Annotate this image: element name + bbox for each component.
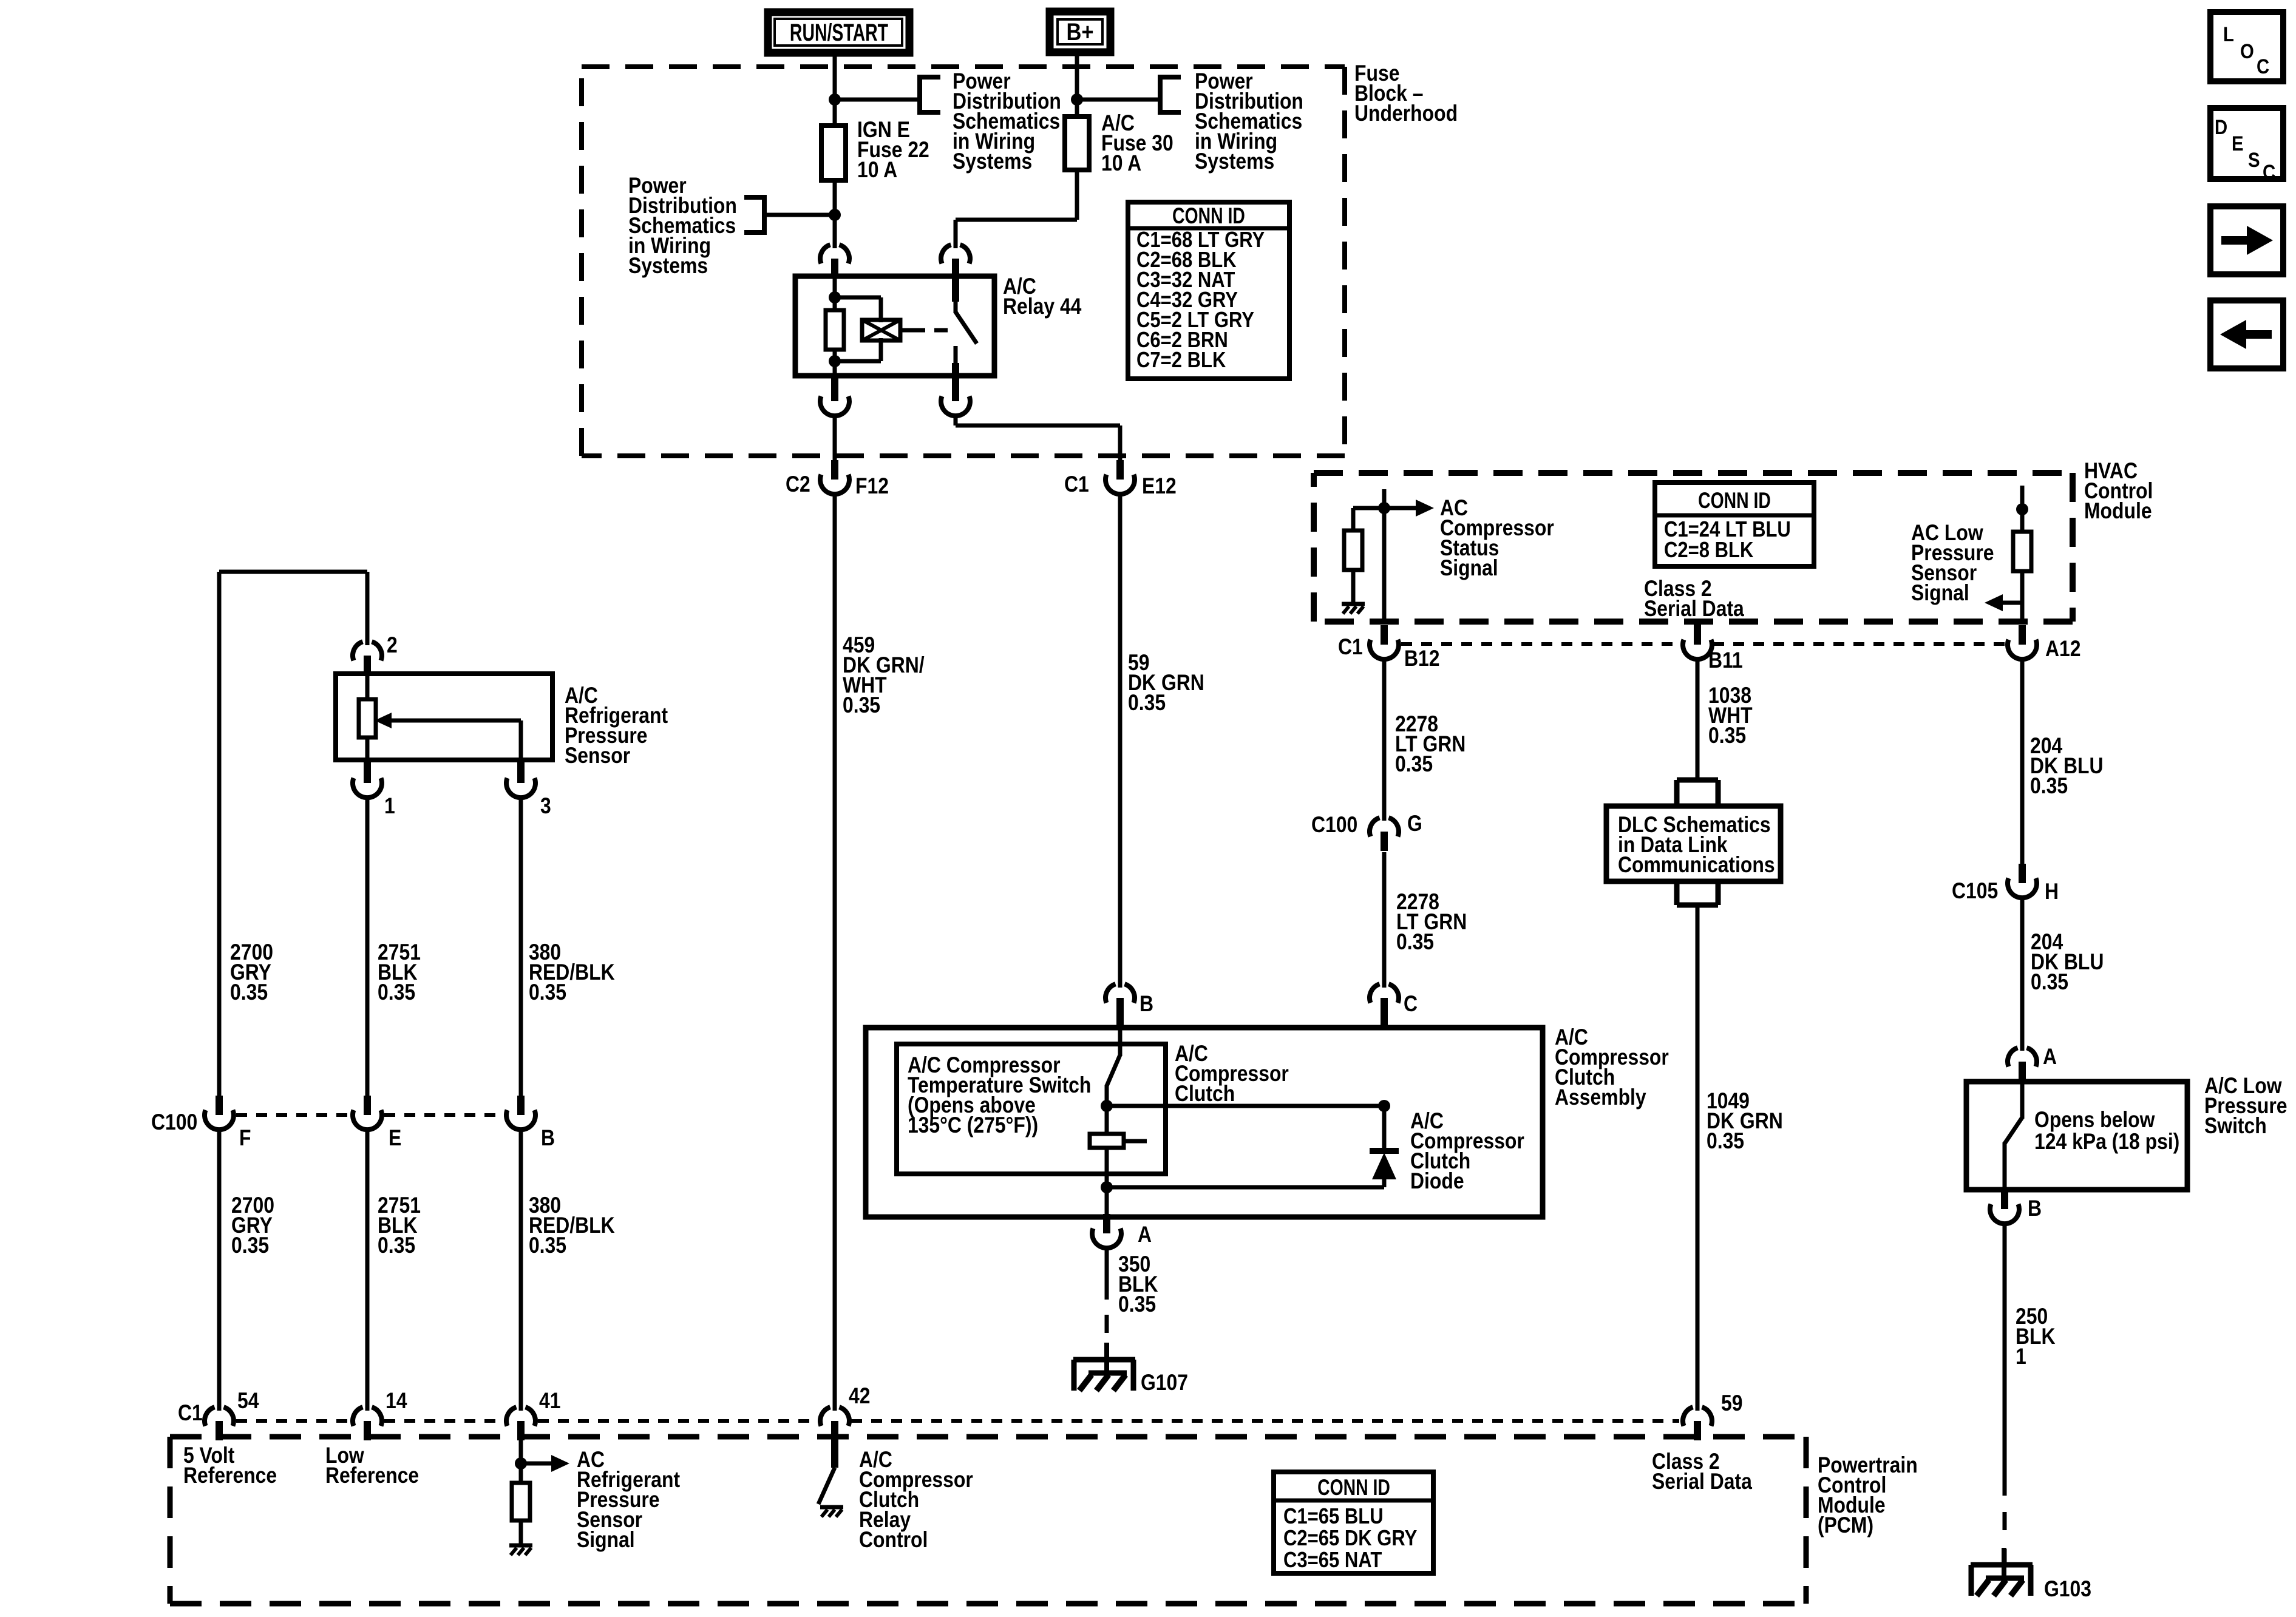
junction node relay coil bottom [829, 355, 841, 367]
relay control switch blade PCM [818, 1437, 835, 1504]
svg-text:L: L [2223, 22, 2234, 46]
connector C100 G [1370, 818, 1399, 851]
svg-text:A12: A12 [2045, 637, 2081, 662]
svg-text:0.35: 0.35 [378, 980, 415, 1005]
table PCM CONN ID [1274, 1472, 1433, 1573]
connector PCM pin 42 [820, 1407, 849, 1440]
wire 250 BLK [2003, 1224, 2007, 1496]
svg-text:A: A [2043, 1045, 2057, 1070]
svg-text:RUN/START: RUN/START [790, 19, 888, 46]
connector clutch pin A [1092, 1214, 1121, 1248]
svg-text:Clutch: Clutch [1175, 1082, 1235, 1107]
svg-text:0.35: 0.35 [1707, 1129, 1744, 1154]
resistor HVAC status pulldown [1344, 531, 1362, 570]
label power distribution schematics 3 [1195, 69, 1303, 174]
svg-text:1: 1 [384, 794, 395, 819]
temperature switch element [1090, 1106, 1147, 1148]
svg-text:G107: G107 [1141, 1371, 1188, 1395]
off-page bracket power distribution 3 [1160, 75, 1181, 115]
off-page bracket power distribution 1 [920, 75, 940, 115]
svg-text:C: C [1404, 992, 1418, 1017]
nav box LOC [2210, 12, 2283, 81]
wire sensor resistor bottom [365, 737, 370, 760]
wire relay coil branch [833, 275, 837, 311]
nav box arrow right [2210, 206, 2283, 274]
wire 459 DK GRN/WHT [833, 493, 837, 1411]
label wire 59 DK GRN 0.35 [1128, 651, 1204, 716]
dashed wire to G103 [2003, 1512, 2007, 1530]
nav box DESC [2210, 108, 2283, 179]
junction node clutch bottom [1101, 1181, 1113, 1193]
svg-text:Signal: Signal [1440, 556, 1498, 581]
svg-text:0.35: 0.35 [378, 1233, 415, 1258]
wire 204 DK BLU lower [2020, 898, 2025, 1051]
label A/C Refrigerant Pressure Sensor [565, 683, 668, 768]
wire 2751 upper [365, 796, 370, 1099]
svg-text:0.35: 0.35 [1396, 930, 1434, 955]
label power distribution schematics 1 [953, 69, 1061, 174]
label wire 2751 BLK 0.35 upper [378, 940, 421, 1005]
resistor relay internal [826, 310, 844, 350]
svg-text:B: B [541, 1126, 555, 1151]
connector relay switch pin top [941, 245, 970, 278]
wire clutch to ground pin [1105, 1187, 1109, 1217]
HVAC control module dashed box [1314, 473, 2073, 622]
fuse IGN E Fuse 22 10A [821, 126, 846, 180]
svg-text:2: 2 [387, 633, 398, 658]
svg-text:Serial Data: Serial Data [1644, 597, 1745, 622]
label wire 2700 GRY 0.35 upper [230, 940, 273, 1005]
nav box arrow left [2210, 300, 2283, 368]
dashed wire to G107 [1105, 1315, 1109, 1333]
label wire 204 DK BLU 0.35 upper [2030, 734, 2103, 799]
ground HVAC internal [1342, 604, 1365, 614]
A/C compressor temperature switch box [897, 1044, 1166, 1174]
wire to power distribution reference 1 [835, 98, 920, 102]
svg-text:Diode: Diode [1410, 1169, 1464, 1194]
svg-text:C2=8 BLK: C2=8 BLK [1664, 538, 1753, 563]
svg-text:C1: C1 [1338, 635, 1363, 660]
label wire 204 DK BLU 0.35 lower [2031, 930, 2104, 995]
svg-text:Serial Data: Serial Data [1652, 1470, 1753, 1494]
label wire 2751 BLK 0.35 lower [378, 1193, 421, 1258]
connector B11 [1694, 620, 1701, 629]
svg-text:C7=2 BLK: C7=2 BLK [1136, 348, 1226, 373]
wire to power distribution reference 3 [1077, 98, 1160, 102]
label A/C Compressor Clutch [1175, 1042, 1289, 1107]
label DLC Schematics in Data Link Communications [1618, 813, 1775, 878]
svg-text:0.35: 0.35 [231, 1233, 269, 1258]
off-page bracket DLC top [1677, 780, 1718, 804]
label wire 2700 GRY 0.35 lower [231, 1193, 274, 1258]
sensor wiper arrow [375, 713, 521, 760]
label AC Refrigerant Pressure Sensor Signal [577, 1448, 681, 1553]
wire 5V reference top run [219, 572, 367, 1099]
svg-text:D: D [2215, 115, 2227, 139]
svg-text:C2: C2 [786, 472, 810, 497]
label A/C Compressor Clutch Relay Control [859, 1448, 973, 1553]
wire 2278 lower [1382, 852, 1387, 988]
connector PCM pin 14 [353, 1407, 382, 1440]
wire IGN E fuse to relay [833, 180, 837, 248]
wire 2751 lower [365, 1128, 370, 1411]
label Class 2 Serial Data PCM [1652, 1449, 1753, 1494]
dashed connector line C100 [236, 1113, 503, 1117]
svg-text:42: 42 [849, 1384, 870, 1409]
label wire 1049 DK GRN 0.35 [1707, 1089, 1783, 1154]
label wire 380 RED/BLK 0.35 lower [529, 1193, 615, 1258]
wire into G103 [2003, 1549, 2007, 1565]
svg-text:Sensor: Sensor [565, 744, 630, 768]
svg-text:0.35: 0.35 [230, 980, 268, 1005]
ground G103 [1971, 1548, 2033, 1596]
svg-text:O: O [2240, 39, 2254, 63]
svg-text:Systems: Systems [1195, 149, 1274, 174]
svg-text:124 kPa (18 psi): 124 kPa (18 psi) [2034, 1130, 2179, 1154]
svg-text:B+: B+ [1066, 18, 1093, 46]
wire PCM resistor to ground [519, 1520, 523, 1544]
wire HVAC pulldown [1351, 508, 1356, 532]
wire RUN/START ignition feed [833, 53, 837, 128]
label wire 2278 LT GRN 0.35 upper [1395, 712, 1466, 777]
label wire 350 BLK 0.35 [1118, 1252, 1158, 1317]
svg-text:B: B [2028, 1196, 2042, 1221]
wire into G107 [1105, 1347, 1109, 1361]
connector low pressure switch pin B [1990, 1190, 2019, 1224]
resistor HVAC low pressure pullup [2013, 532, 2031, 571]
off-page bracket power distribution 2 [744, 195, 764, 235]
svg-text:Opens below: Opens below [2034, 1108, 2155, 1133]
svg-text:Signal: Signal [1911, 581, 1969, 606]
svg-text:0.35: 0.35 [843, 693, 880, 718]
table fuse block CONN ID [1128, 202, 1289, 379]
connector clutch pin C [1370, 984, 1399, 1017]
wire 350 BLK [1105, 1247, 1109, 1300]
label HVAC Control Module [2084, 459, 2153, 524]
svg-text:CONN ID: CONN ID [1317, 1476, 1390, 1500]
connector relay coil pin bottom [820, 382, 849, 416]
wire B+ battery feed [1075, 52, 1079, 119]
junction node ign feed [829, 93, 841, 106]
svg-text:(PCM): (PCM) [1818, 1513, 1873, 1538]
label A/C Compressor Temperature Switch [908, 1053, 1091, 1138]
svg-text:C1: C1 [178, 1401, 203, 1426]
connector C105 H [2008, 864, 2037, 898]
connector A12 [2008, 625, 2037, 659]
svg-text:14: 14 [385, 1389, 407, 1414]
junction node low pressure signal [2016, 503, 2028, 515]
wire sensor resistor top [365, 674, 370, 700]
svg-text:E: E [2232, 132, 2244, 155]
wire AC compressor status node [1353, 489, 1384, 624]
A/C low pressure switch box [1966, 1082, 2187, 1190]
connector PCM pin 59 [1683, 1407, 1712, 1440]
junction node diode top [1378, 1100, 1390, 1112]
connector sensor pin 1 [364, 759, 371, 766]
svg-text:Reference: Reference [325, 1463, 419, 1488]
dashed actuator link [912, 328, 952, 333]
svg-text:E12: E12 [1142, 474, 1177, 499]
arrow AC low pressure sensor signal [1985, 594, 2022, 611]
A/C compressor clutch assembly box [866, 1028, 1543, 1217]
power feed box RUN/START [768, 12, 909, 53]
wire 1038 WHT [1696, 659, 1700, 782]
connector relay switch pin bottom [941, 382, 970, 416]
junction node temp switch top [1101, 1100, 1113, 1112]
connector clutch pin B [1106, 984, 1135, 1017]
label A/C Fuse 30 10 A [1101, 111, 1173, 176]
wire HVAC pulldown to ground [1351, 570, 1356, 602]
label power distribution schematics 2 [628, 174, 737, 279]
ground PCM internal [509, 1545, 532, 1555]
label A/C Compressor Clutch Diode [1410, 1109, 1524, 1194]
label wire 250 BLK 1 [2016, 1304, 2056, 1369]
svg-text:G: G [1407, 812, 1422, 836]
wire AC low pressure sensor node [2020, 486, 2025, 533]
wire relay coil actuator lead [900, 328, 912, 333]
resistor sensor potentiometer [359, 699, 376, 737]
svg-text:3: 3 [540, 794, 551, 819]
svg-text:135°C (275°F)): 135°C (275°F)) [908, 1113, 1038, 1138]
label AC Compressor Status Signal [1440, 496, 1554, 581]
wire relay switch out [956, 415, 1120, 464]
dotted connector line C1 PCM [236, 1419, 1679, 1423]
wire 380 lower [519, 1128, 523, 1411]
label Low Reference [325, 1443, 419, 1488]
svg-text:CONN ID: CONN ID [1172, 204, 1245, 229]
svg-text:0.35: 0.35 [529, 980, 566, 1005]
svg-text:Reference: Reference [183, 1463, 277, 1488]
label Class 2 Serial Data HVAC [1644, 577, 1745, 622]
wire clutch coil top link [1107, 1104, 1384, 1108]
label AC Low Pressure Sensor Signal [1911, 521, 1994, 606]
svg-text:C105: C105 [1952, 879, 1998, 904]
svg-text:1: 1 [2016, 1344, 2026, 1369]
label wire 2278 LT GRN 0.35 lower [1396, 890, 1467, 955]
off-page bracket DLC bottom [1677, 881, 1718, 905]
svg-text:F: F [239, 1126, 251, 1151]
svg-text:0.35: 0.35 [1128, 691, 1166, 716]
svg-text:C1=65 BLU: C1=65 BLU [1283, 1505, 1384, 1529]
label A/C Relay 44 [1003, 274, 1082, 319]
wire pullup to A12 [2020, 571, 2025, 624]
junction node relay coil top [829, 291, 841, 303]
wire 1049 DK GRN [1696, 905, 1700, 1411]
svg-text:C: C [2257, 55, 2269, 78]
connector low pressure switch pin A [2008, 1048, 2037, 1081]
ground G107 [1073, 1343, 1135, 1391]
relay box A/C Relay 44 [795, 276, 994, 376]
svg-text:CONN ID: CONN ID [1698, 489, 1771, 514]
svg-text:F12: F12 [855, 474, 889, 499]
wire relay coil stub bottom [831, 376, 838, 401]
DLC schematics reference box [1606, 806, 1781, 881]
label wire 380 RED/BLK 0.35 upper [529, 940, 615, 1005]
svg-text:10 A: 10 A [857, 158, 897, 183]
svg-text:Assembly: Assembly [1555, 1085, 1646, 1110]
connector C1 E12 [1106, 460, 1135, 494]
svg-text:G103: G103 [2044, 1577, 2091, 1602]
wire relay coil bottom link [835, 338, 881, 361]
wire clutch coil bottom link [1107, 1185, 1384, 1190]
label Powertrain Control Module PCM [1818, 1453, 1918, 1538]
fuse block underhood dashed box [582, 67, 1345, 456]
sensor box A/C refrigerant pressure sensor [336, 674, 552, 760]
svg-text:H: H [2045, 880, 2059, 904]
label A/C Compressor Clutch Assembly [1555, 1025, 1669, 1110]
connector C1 B12 [1370, 625, 1399, 659]
svg-text:0.35: 0.35 [2031, 970, 2068, 995]
connector C2 F12 [820, 460, 849, 494]
svg-text:B11: B11 [1708, 648, 1743, 673]
label wire 1038 WHT 0.35 [1708, 683, 1753, 748]
wire temp element to bottom node [1105, 1148, 1109, 1187]
wire 59 DK GRN [1118, 493, 1123, 988]
PCM dashed box [170, 1437, 1806, 1604]
svg-text:0.35: 0.35 [2030, 774, 2068, 799]
ground relay control [820, 1507, 843, 1517]
svg-text:0.35: 0.35 [529, 1233, 566, 1258]
wire 204 DK BLU upper [2020, 659, 2025, 866]
fuse A/C Fuse 30 10A [1065, 117, 1089, 170]
svg-text:Systems: Systems [628, 254, 708, 279]
connector PCM pin 54 [205, 1407, 234, 1440]
label A/C Low Pressure Switch [2204, 1074, 2287, 1139]
svg-text:41: 41 [539, 1389, 560, 1414]
svg-text:Communications: Communications [1618, 853, 1775, 878]
svg-text:0.35: 0.35 [1118, 1292, 1156, 1317]
svg-text:C2=65 DK GRY: C2=65 DK GRY [1283, 1527, 1417, 1551]
relay switch blade [956, 276, 977, 401]
connector PCM pin 41 [506, 1407, 535, 1440]
junction node status signal [1378, 502, 1390, 514]
wire to power distribution reference 2 [764, 213, 835, 217]
label wire 459 DK GRN/WHT 0.35 [843, 633, 925, 718]
wire relay resistor to box bottom [833, 350, 837, 378]
wire sensor pin 2 feed [365, 572, 370, 645]
svg-text:C100: C100 [1311, 813, 1357, 838]
svg-text:C1: C1 [1064, 472, 1089, 497]
label 5 Volt Reference [183, 1443, 277, 1488]
svg-text:C100: C100 [151, 1110, 197, 1135]
label IGN E Fuse 22 10 A [857, 118, 929, 183]
connector relay coil pin top [820, 245, 849, 278]
resistor PCM sensor signal [512, 1483, 530, 1520]
wire A/C fuse to relay switch [956, 170, 1077, 248]
relay coil element [862, 320, 900, 341]
label Fuse Block - Underhood [1354, 61, 1458, 126]
dotted connector line HVAC row [1401, 642, 2006, 646]
label Opens below 124 kPa [2034, 1108, 2179, 1154]
connector sensor pin 3 [517, 759, 525, 766]
connector C100 F [205, 1096, 234, 1130]
table rows PCM conn id [1283, 1505, 1417, 1573]
arrow AC refrigerant pressure sensor signal [521, 1455, 569, 1472]
svg-text:Underhood: Underhood [1354, 101, 1458, 126]
temperature switch blade [1107, 1028, 1120, 1106]
wire 2278 upper [1382, 659, 1387, 821]
wire relay coil out [833, 415, 837, 464]
diode A/C compressor clutch [1370, 1106, 1399, 1187]
low pressure switch blade [2005, 1082, 2022, 1190]
svg-text:B: B [1140, 992, 1153, 1017]
connector C100 B [506, 1096, 535, 1130]
junction node battery feed [1071, 93, 1083, 106]
junction node pressure signal [515, 1457, 527, 1470]
svg-text:E: E [389, 1126, 401, 1151]
svg-text:59: 59 [1721, 1391, 1742, 1416]
svg-text:54: 54 [237, 1389, 259, 1414]
svg-text:B12: B12 [1404, 646, 1440, 671]
svg-text:Switch: Switch [2204, 1114, 2267, 1139]
power feed box B+ [1050, 12, 1110, 52]
svg-text:Control: Control [859, 1528, 928, 1553]
svg-text:Module: Module [2084, 499, 2152, 524]
svg-text:C: C [2263, 160, 2275, 184]
arrow AC compressor status signal [1384, 500, 1434, 517]
junction node ign fuse lower [829, 209, 841, 221]
wire 2700 lower [217, 1128, 222, 1411]
svg-text:0.35: 0.35 [1395, 752, 1433, 777]
svg-text:Systems: Systems [953, 149, 1032, 174]
table rows HVAC conn id [1664, 518, 1791, 563]
table HVAC CONN ID [1655, 483, 1814, 566]
connector sensor pin 2 [353, 642, 382, 675]
svg-text:A: A [1138, 1222, 1152, 1247]
svg-text:Relay 44: Relay 44 [1003, 294, 1082, 319]
connector C100 E [353, 1096, 382, 1130]
svg-text:0.35: 0.35 [1708, 724, 1746, 748]
wire 380 upper [519, 796, 523, 1099]
svg-text:10 A: 10 A [1101, 151, 1141, 176]
svg-text:C3=65 NAT: C3=65 NAT [1283, 1548, 1382, 1573]
svg-text:Signal: Signal [577, 1528, 635, 1553]
svg-text:S: S [2248, 148, 2260, 172]
table rows fuse block conn id [1136, 228, 1265, 373]
wire pin 41 internal [519, 1437, 523, 1485]
wire relay coil top link [835, 297, 881, 322]
